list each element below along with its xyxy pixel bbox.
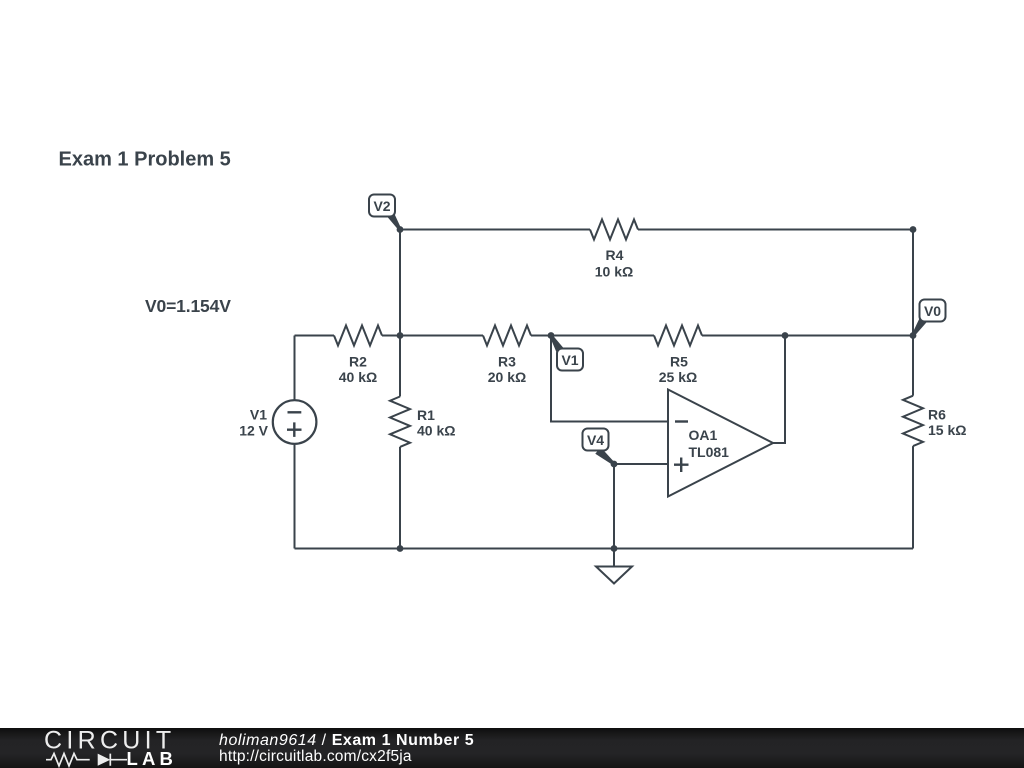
- wire right vertical upper (top-right corner down to V0 node): [912, 230, 914, 336]
- R1 value label: [417, 423, 455, 439]
- junction node V1: [548, 332, 555, 339]
- svg-text:40 kΩ: 40 kΩ: [417, 423, 455, 439]
- resistor R6: [903, 396, 923, 446]
- junction node V4: [611, 461, 618, 468]
- svg-text:V1: V1: [250, 407, 267, 423]
- node flag V4: [583, 429, 616, 466]
- resistor R4: [590, 220, 638, 240]
- svg-text:R3: R3: [498, 354, 516, 370]
- wire vertical V2 node down to middle rail: [399, 230, 401, 336]
- wire V1 bottom lead: [294, 444, 296, 549]
- R5 value label: [659, 369, 697, 385]
- V1 name label: [250, 407, 267, 423]
- junction feedback / output: [782, 332, 789, 339]
- R5 name label: [670, 354, 688, 370]
- footer line 1: user / title: [219, 732, 474, 750]
- V1 value label: [239, 423, 268, 439]
- footer line 2: url: [219, 748, 412, 766]
- svg-text:R5: R5: [670, 354, 688, 370]
- wire top left (V2 node to R4): [400, 229, 590, 231]
- OA1 name label: [689, 427, 718, 443]
- svg-text:12 V: 12 V: [239, 423, 268, 439]
- svg-text:40 kΩ: 40 kΩ: [339, 369, 377, 385]
- svg-text:R4: R4: [606, 247, 624, 263]
- wire R1 bottom lead: [399, 447, 401, 549]
- annotation V0=1.154V: [145, 296, 231, 316]
- resistor R5: [654, 326, 702, 346]
- R2 value label: [339, 369, 377, 385]
- wire top right (R4 to top-right corner): [638, 229, 913, 231]
- footer bar: [0, 728, 1024, 768]
- svg-text:25 kΩ: 25 kΩ: [659, 369, 697, 385]
- node flag V0: [912, 300, 946, 337]
- wire non-inverting input (V4 node to op-amp): [614, 463, 668, 465]
- OA1 part label TL081: [689, 444, 730, 460]
- svg-text:Exam 1 Problem 5: Exam 1 Problem 5: [59, 149, 231, 171]
- op-amp OA1: [668, 390, 773, 497]
- resistor R1: [390, 397, 410, 447]
- wire bottom rail: [295, 548, 914, 550]
- svg-text:V4: V4: [587, 432, 604, 448]
- junction ground: [611, 545, 618, 552]
- svg-text:10 kΩ: 10 kΩ: [595, 264, 633, 280]
- R3 value label: [488, 369, 526, 385]
- wire middle rail (R3 to node V1 and on to R5): [531, 335, 654, 337]
- svg-text:20 kΩ: 20 kΩ: [488, 369, 526, 385]
- R6 value label: [928, 422, 966, 438]
- ground: [596, 549, 632, 584]
- node flag V1: [550, 335, 583, 371]
- wire middle rail right (R5 to V0 node): [702, 335, 913, 337]
- R4 name label: [606, 247, 624, 263]
- svg-text:R1: R1: [417, 407, 435, 423]
- R4 value label: [595, 264, 633, 280]
- junction R1 bottom: [397, 545, 404, 552]
- svg-text:R2: R2: [349, 354, 367, 370]
- svg-text:LAB: LAB: [127, 748, 178, 768]
- R2 name label: [349, 354, 367, 370]
- title text: [59, 149, 231, 171]
- voltage source V1: [273, 400, 317, 444]
- svg-text:15 kΩ: 15 kΩ: [928, 422, 966, 438]
- wire middle rail (R2 to R3): [382, 335, 483, 337]
- svg-text:V0: V0: [924, 303, 941, 319]
- wire op-amp output: [773, 336, 785, 444]
- svg-text:V2: V2: [373, 198, 390, 214]
- node flag V2: [369, 195, 401, 231]
- wire middle rail left (V1 source corner to R2): [295, 335, 335, 337]
- svg-text:OA1: OA1: [689, 427, 718, 443]
- resistor R2: [334, 326, 382, 346]
- svg-text:R6: R6: [928, 407, 946, 423]
- junction at V2 node: [397, 226, 404, 233]
- wire V1 top lead: [294, 336, 296, 401]
- svg-text:V1: V1: [561, 352, 578, 368]
- junction node V0: [910, 332, 917, 339]
- wire R6 bottom lead: [912, 446, 914, 548]
- wire V4 node down to bottom rail: [613, 464, 615, 549]
- junction top-right corner: [910, 226, 917, 233]
- wire inverting input (node V1 down and right to op-amp): [551, 336, 668, 422]
- wire right vertical lower (V0 node to R6): [912, 336, 914, 396]
- R1 name label: [417, 407, 435, 423]
- svg-text:V0=1.154V: V0=1.154V: [145, 296, 231, 316]
- junction middle rail / R1 top: [397, 332, 404, 339]
- R6 name label: [928, 407, 946, 423]
- R3 name label: [498, 354, 516, 370]
- wire R1 top lead: [399, 336, 401, 397]
- resistor R3: [483, 326, 531, 346]
- svg-text:TL081: TL081: [689, 444, 730, 460]
- CircuitLab logo: [0, 728, 200, 768]
